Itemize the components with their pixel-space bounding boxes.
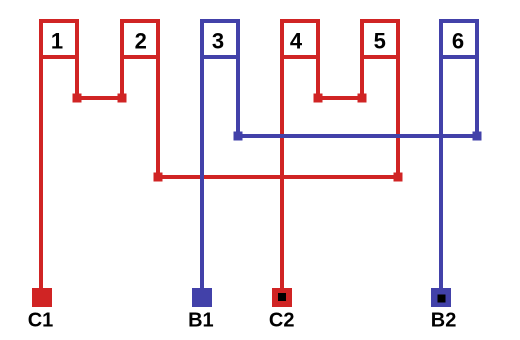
terminal C2 black center: [278, 293, 286, 301]
junction coil2-right: [154, 173, 163, 182]
coil 5: [362, 21, 398, 57]
junction coil4-right: [314, 94, 323, 103]
svg-text:1: 1: [51, 29, 63, 54]
wire coil4-left to C2: [280, 57, 284, 292]
svg-text:6: 6: [452, 29, 464, 54]
svg-text:B1: B1: [188, 309, 214, 331]
terminal B2: [431, 288, 451, 307]
terminal B2 black center: [438, 295, 446, 303]
junction coil2-left: [118, 94, 127, 103]
wire coil5-left down: [360, 57, 364, 98]
svg-text:B2: B2: [431, 309, 457, 331]
wire coil1-left to C1: [39, 57, 43, 292]
wire coil3-right down: [236, 57, 240, 136]
junction coil3-right: [234, 132, 243, 141]
svg-text:4: 4: [290, 29, 303, 54]
wire red bus coil2 to coil5: [158, 175, 398, 179]
svg-text:5: 5: [374, 29, 386, 54]
wire coil6-right down: [475, 57, 479, 136]
terminal B1: [192, 288, 212, 307]
wire blue bus coil3 to coil6: [238, 134, 477, 138]
junction coil5-left: [358, 94, 367, 103]
wire coil4-right down: [316, 57, 320, 98]
coil 3: [202, 21, 238, 57]
wire coil3-left to B1: [200, 57, 204, 292]
svg-text:C1: C1: [28, 309, 54, 331]
junction coil6-right: [473, 132, 482, 141]
terminal C1: [32, 288, 52, 307]
coil 1: [41, 21, 77, 57]
wire coil2-right down: [156, 57, 160, 177]
svg-text:2: 2: [135, 29, 147, 54]
coil 2: [122, 21, 158, 57]
wire coil2-left down: [120, 57, 124, 98]
junction coil1-right: [73, 94, 82, 103]
wire coil6-left to B2: [439, 57, 443, 292]
junction coil5-right: [394, 173, 403, 182]
wire coil1-right down: [75, 57, 79, 98]
svg-text:3: 3: [212, 29, 224, 54]
terminal C2: [272, 288, 292, 307]
svg-text:C2: C2: [269, 309, 295, 331]
coil 6: [441, 21, 477, 57]
wire link coil1-coil2: [77, 96, 122, 100]
coil 4: [282, 21, 318, 57]
wire coil5-right down: [396, 57, 400, 177]
wire link coil4-coil5: [318, 96, 362, 100]
